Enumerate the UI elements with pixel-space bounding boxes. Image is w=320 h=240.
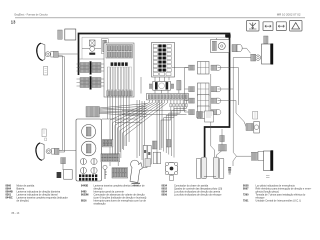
svg-text:8067: 8067	[243, 187, 249, 190]
fuse box output stub wires	[141, 77, 179, 94]
bulkhead connector G1	[77, 61, 105, 74]
key switch symbol	[103, 165, 107, 179]
svg-text:86 - 13: 86 - 13	[12, 212, 20, 215]
wire	[59, 149, 76, 151]
frame inner boundary line top	[82, 36, 226, 38]
side repeater bulb	[254, 122, 259, 134]
wire relay3 output to side repeater	[218, 101, 246, 127]
fuse box outline	[152, 43, 175, 78]
legend column 1	[6, 184, 68, 202]
flasher unit E left pin	[149, 84, 152, 88]
connector B lower hatched row	[107, 91, 133, 96]
lamp 2 bulb	[46, 149, 51, 154]
cluster fan wires	[99, 104, 147, 117]
svg-text:7290: 7290	[243, 193, 249, 196]
svg-text:8056: 8056	[162, 193, 168, 196]
small connector mid 2	[166, 140, 171, 148]
svg-text:EsqElect - Formas de Circuito: EsqElect - Formas de Circuito	[15, 13, 49, 16]
rear lamp right unit inner	[214, 157, 219, 178]
telltale lamp 4	[91, 167, 97, 173]
lamp 2 socket	[52, 149, 55, 155]
dark connector under relay stack	[197, 112, 203, 118]
buzzer box outline	[211, 40, 230, 53]
connector below lamp 2	[61, 158, 66, 164]
bulkhead connector G2	[77, 76, 105, 89]
lamp 1 connector	[54, 51, 58, 57]
frame corner connector tab	[225, 34, 230, 37]
wire trunk beside frame	[233, 58, 251, 157]
gauge circle 2	[81, 141, 96, 156]
small rect pair	[153, 152, 160, 164]
front right lamp connector	[251, 54, 256, 61]
wire	[58, 53, 78, 55]
connector D2 beside frame	[232, 45, 242, 52]
pin strip stub wires	[170, 100, 188, 107]
label box under relay stack	[205, 111, 214, 122]
right lamp R3 body	[264, 151, 271, 171]
front right lamp top connector	[264, 36, 268, 43]
wire front right lamp feed	[233, 57, 251, 59]
connector B black terminal row	[111, 62, 128, 66]
lamp J with leads	[220, 129, 225, 146]
svg-text:Unidade Central de Interconexõ: Unidade Central de Interconexões (U.C.I.…	[256, 199, 302, 202]
bulb holder assembly 2	[189, 83, 221, 96]
cluster terminal row 2	[79, 178, 97, 181]
telltale lamp 2	[91, 158, 97, 164]
side repeater connector	[246, 124, 253, 131]
lamp 2 thick reflector edge	[36, 143, 42, 160]
wire	[62, 164, 64, 170]
right lamp R3 reflector bar	[271, 150, 274, 171]
wire label tag mid left	[42, 129, 46, 137]
relay stack feed bus	[185, 68, 189, 112]
right lamp R3 bulb housing	[258, 152, 264, 161]
connector B slot columns	[107, 67, 131, 90]
wire label text marks	[228, 167, 231, 174]
telltale lamp 1	[80, 158, 86, 164]
frame inner boundary line left	[81, 37, 83, 59]
right lamp R3 connector	[251, 152, 257, 160]
small dark block	[57, 172, 62, 178]
relay K1 contact circle	[90, 47, 95, 52]
gauge circle 1	[82, 125, 96, 139]
connector housing B outline	[104, 43, 134, 97]
rear lamp connector	[219, 145, 227, 152]
connector grid long	[101, 154, 120, 162]
wire feed to relay stack	[172, 67, 189, 69]
nested cascade wires under pin strip	[161, 107, 186, 158]
connector grid top rows	[106, 45, 132, 59]
connector grid bottom	[112, 168, 128, 178]
header rule	[15, 17, 305, 19]
wire vertical through relay stack	[211, 74, 215, 157]
relay K1 coil box	[90, 40, 96, 46]
svg-text:MR 10 2002 07 02: MR 10 2002 07 02	[277, 12, 301, 16]
pin strip F pins	[148, 95, 187, 99]
interconnection unit UCI thick frame	[79, 34, 230, 158]
front right lamp bulb	[255, 55, 260, 60]
legend column 4	[243, 184, 312, 202]
pin strip F outline	[147, 94, 189, 100]
icon box: vehicle hoist symbol	[247, 21, 260, 32]
horizontal harness runs	[102, 111, 187, 123]
wire relay1 output	[218, 68, 239, 105]
icon box: arrows symbol 1	[263, 22, 273, 31]
wire stub to label	[233, 156, 237, 166]
buzzer circle	[218, 43, 225, 50]
wire from connector D2 to lamp R1	[242, 48, 250, 53]
svg-text:Luz piloto indicadora de direç: Luz piloto indicadora de direção do rebo…	[174, 193, 222, 196]
connector B internal wires	[107, 67, 129, 95]
svg-text:13: 13	[11, 20, 16, 25]
bulb holder assembly 4	[189, 106, 221, 119]
cluster top connector	[86, 107, 100, 118]
lamp 2 connector	[55, 148, 59, 154]
small lamp beside flasher	[177, 80, 181, 90]
small white box	[64, 170, 73, 180]
steering column switch drawing	[130, 160, 142, 182]
wire relay2 output	[218, 88, 234, 90]
icon box: warning triangle	[290, 21, 303, 32]
horn button round part	[165, 162, 178, 180]
rear lamp right unit outer	[219, 158, 224, 178]
rear lamp left unit outer	[196, 158, 201, 178]
lamp 1 bulb	[45, 52, 50, 57]
wire	[82, 48, 90, 50]
buzzer connector	[212, 41, 216, 50]
wire	[95, 48, 102, 50]
instrument cluster box	[76, 119, 102, 181]
front right turn lamp body	[262, 44, 271, 64]
wire	[58, 56, 62, 151]
switch label marks	[132, 183, 141, 186]
relay pair tall rects	[143, 146, 151, 168]
bulb holder assembly 3	[189, 95, 221, 108]
fuse holder strip	[58, 30, 63, 39]
svg-text:8816: 8816	[81, 199, 87, 202]
fuse rows with black fuses	[153, 44, 171, 71]
wire bundle center	[137, 100, 162, 160]
sub-box divider	[79, 58, 104, 60]
cluster side connector grid	[103, 140, 113, 147]
svg-text:8445D: 8445D	[81, 184, 88, 187]
bulb holder assembly 1	[189, 62, 221, 75]
pin strip fan wires	[110, 100, 168, 166]
flasher unit E body	[153, 81, 171, 90]
fuse box bottom spare row	[153, 73, 171, 76]
wire	[216, 38, 218, 40]
relay box top left	[65, 29, 76, 40]
lamp R3 label	[266, 175, 270, 177]
relay K1 base	[89, 53, 95, 55]
svg-text:sinalização: sinalização	[94, 202, 107, 205]
wire link between rear lamps	[204, 176, 216, 178]
legend column 2	[81, 184, 147, 205]
icon box: arrows symbol 2	[276, 22, 286, 31]
front left lamp 2 housing	[36, 143, 44, 160]
cluster terminal row 1	[79, 174, 97, 177]
flasher unit E right pin	[171, 84, 174, 88]
front right lamp reflector bar	[271, 44, 274, 65]
wire bundle from connector B	[107, 96, 129, 166]
lamp 2 tag mark	[45, 138, 47, 141]
wire	[58, 57, 64, 152]
lamp 1 thick reflector edge	[37, 43, 43, 60]
lamp symbol H1	[101, 39, 108, 54]
wire	[217, 151, 222, 157]
svg-text:de direção): de direção)	[17, 199, 29, 202]
lamp 1 label tag	[44, 67, 48, 76]
svg-text:8625M: 8625M	[81, 193, 88, 196]
svg-text:7501: 7501	[243, 199, 249, 202]
svg-text:8445C: 8445C	[6, 196, 13, 199]
rear lamp left unit inner	[202, 157, 207, 178]
legend column 3	[162, 184, 223, 196]
front left turn lamp housing	[37, 43, 45, 60]
small connector mid 1	[152, 141, 157, 149]
side repeater label plate	[253, 111, 258, 119]
lamp 1 socket	[51, 51, 54, 57]
telltale lamp 3	[80, 167, 86, 173]
